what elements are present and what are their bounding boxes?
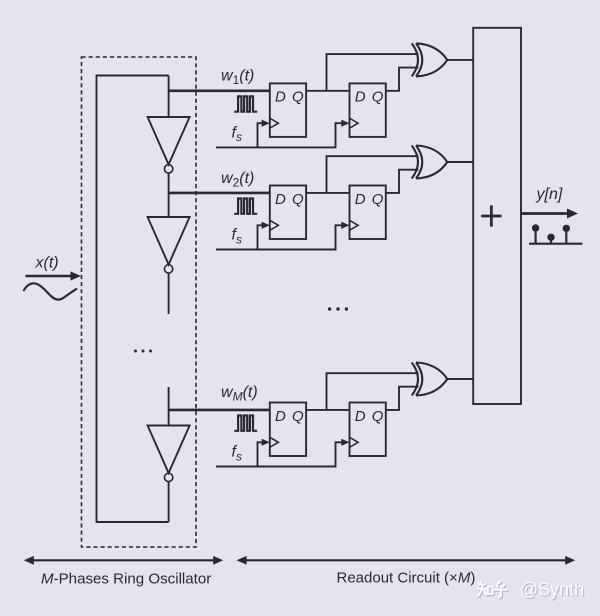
flip-flop FF1b <box>350 83 386 136</box>
svg-text:D: D <box>275 408 286 425</box>
svg-text:Q: Q <box>292 408 304 425</box>
wire: chain segment into inverter U1 <box>168 76 170 118</box>
wire: UM output to feedback loop <box>168 482 170 522</box>
inverter U2 <box>148 217 190 273</box>
node w_2: oscillator phase tap wire <box>169 192 270 195</box>
watermark: zhihu @Synth <box>477 579 585 600</box>
svg-text:@Synth: @Synth <box>520 579 584 599</box>
svg-text:Q: Q <box>292 191 304 208</box>
ring oscillator boundary (dashed box) <box>82 57 197 547</box>
flip-flop FF2b <box>350 186 386 240</box>
svg-text:D: D <box>355 408 366 425</box>
svg-text:Readout Circuit (×M): Readout Circuit (×M) <box>337 569 476 586</box>
wire: oscillator feedback loop (left/top/bottom) <box>97 76 169 523</box>
svg-text:D: D <box>355 191 366 208</box>
wire: f_s sampling clock line (row 1) <box>216 123 345 147</box>
wire: f_s sampling clock line (row 3) <box>216 442 345 466</box>
clock arrowhead into FF2b <box>341 222 349 229</box>
wire: chain segment into inverter UM <box>168 387 170 426</box>
plus sign of summer <box>481 205 501 226</box>
wire: FF3a.Q to FF3b.D <box>306 409 349 411</box>
svg-text:D: D <box>275 191 286 208</box>
inverter UM <box>148 426 190 482</box>
svg-text:Q: Q <box>292 89 304 106</box>
wire: XOR1 output to summer <box>447 59 473 61</box>
clock arrowhead into FF1a <box>262 120 270 127</box>
ellipsis: omitted inverters <box>134 350 152 353</box>
xor gate X2 <box>412 146 448 179</box>
svg-text:Q: Q <box>372 89 384 106</box>
summer U-SUM (accumulator) <box>473 28 521 404</box>
node w_1: oscillator phase tap wire <box>169 90 270 93</box>
sine wave symbol <box>23 283 77 299</box>
wire: FF2a.Q to FF2b.D <box>306 192 349 194</box>
svg-text:y[n]: y[n] <box>536 186 563 203</box>
wire: U1 output to U2 <box>168 173 170 217</box>
wire: FF1a.Q to FF1b.D <box>306 90 349 92</box>
clock arrowhead into FF2a <box>262 222 270 229</box>
wire: XOR3 top input (from FF3a.Q junction) <box>327 373 419 410</box>
svg-text:D: D <box>275 89 286 106</box>
wire: XOR2 bottom input (from FF2b.Q) <box>386 170 419 193</box>
ellipsis: omitted readout rows <box>328 307 348 310</box>
wire: XOR3 output to summer <box>447 378 473 380</box>
wire: XOR2 top input (from FF2a.Q junction) <box>327 156 419 193</box>
flip-flop FF2a <box>270 186 306 240</box>
wire: XOR1 bottom input (from FF1b.Q) <box>386 68 419 91</box>
svg-text:x(t): x(t) <box>35 255 59 272</box>
flip-flop FF1a <box>270 83 306 136</box>
flip-flop FF3b <box>350 403 386 457</box>
wire: U2 output (dangling into ellipsis) <box>168 273 170 314</box>
svg-text:D: D <box>355 89 366 106</box>
xor gate X1 <box>412 43 448 76</box>
svg-text:Q: Q <box>372 191 384 208</box>
input arrow x(t) <box>26 275 72 278</box>
clock waveform icon (row 2) <box>234 199 257 214</box>
wire: XOR1 top input (from FF1a.Q junction) <box>327 54 419 91</box>
output arrow y[n] <box>521 212 568 215</box>
inverter U1 <box>148 117 190 173</box>
node w_M: oscillator phase tap wire <box>169 409 270 412</box>
wire: XOR2 output to summer <box>447 161 473 163</box>
sampled output stem plot <box>529 224 582 243</box>
wire: XOR3 bottom input (from FF3b.Q) <box>386 387 419 410</box>
clock arrowhead into FF3a <box>262 439 270 446</box>
xor gate X3 <box>412 363 448 396</box>
wire: f_s sampling clock line (row 2) <box>216 225 345 249</box>
dimension arrow: M-phases ring oscillator extent <box>24 556 223 565</box>
flip-flop FF3a <box>270 403 306 457</box>
clock arrowhead into FF3b <box>341 439 349 446</box>
svg-text:M-Phases Ring Oscillator: M-Phases Ring Oscillator <box>41 570 211 587</box>
dimension arrow: readout circuit extent <box>237 556 576 565</box>
clock arrowhead into FF1b <box>341 120 349 127</box>
svg-text:Q: Q <box>372 408 384 425</box>
clock waveform icon (row 1) <box>234 96 257 111</box>
clock waveform icon (row 3) <box>234 416 257 431</box>
